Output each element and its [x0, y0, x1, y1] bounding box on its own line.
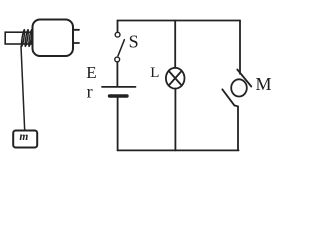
wire lamp to bottom — [174, 89, 176, 151]
wire right upper — [239, 21, 241, 74]
motor body — [33, 20, 74, 57]
winding loops — [21, 29, 33, 46]
wire middle upper — [174, 21, 176, 69]
string — [21, 46, 25, 130]
wire left upper — [117, 21, 119, 33]
wire top — [118, 20, 241, 22]
svg-text:r: r — [87, 81, 93, 101]
weight box — [13, 131, 37, 148]
svg-text:L: L — [150, 65, 159, 81]
wire switch to battery — [116, 62, 118, 86]
motor shaft — [5, 32, 32, 44]
svg-text:m: m — [19, 131, 28, 143]
battery E r — [102, 87, 136, 96]
motor terminal stubs — [74, 30, 79, 43]
wire bottom — [118, 149, 239, 151]
svg-text:E: E — [86, 63, 96, 82]
motor M symbol — [222, 70, 251, 106]
wire motor to bottom — [234, 105, 238, 150]
lamp L — [166, 68, 185, 89]
svg-text:S: S — [129, 31, 139, 51]
wire battery to bottom — [117, 98, 119, 151]
svg-text:M: M — [256, 74, 272, 94]
switch S — [115, 32, 125, 62]
